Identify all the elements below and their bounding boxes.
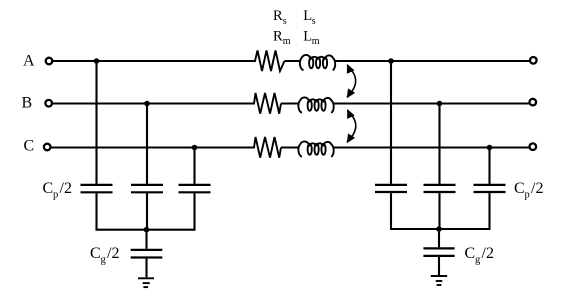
wire drop A left	[95, 61, 97, 184]
capacitor Cp/2 right column B	[424, 185, 456, 192]
wire line B left segment	[53, 102, 253, 104]
svg-text:C: C	[465, 245, 476, 262]
svg-text:/2: /2	[60, 180, 72, 197]
label Lm	[303, 29, 320, 48]
svg-text:s: s	[283, 16, 287, 27]
capacitor Cp/2 left column B	[131, 185, 163, 192]
svg-text:g: g	[475, 255, 481, 266]
label Cp/2 right	[514, 180, 543, 201]
label Cp/2 left	[43, 180, 72, 201]
wire line B resistor-to-coil segment	[281, 102, 299, 104]
label Ls	[303, 8, 316, 27]
svg-text:p: p	[53, 190, 58, 201]
wire line A left segment	[53, 60, 253, 62]
svg-text:A: A	[23, 53, 35, 70]
inductor Ls line A	[300, 55, 335, 70]
svg-text:m: m	[312, 36, 320, 47]
resistor Rs line A	[253, 51, 285, 72]
resistor Rs line B	[253, 93, 282, 114]
wire line C left segment	[51, 146, 252, 148]
terminal C left	[44, 144, 51, 151]
svg-text:/2: /2	[107, 245, 119, 262]
capacitor Cp/2 left column C	[179, 185, 211, 192]
svg-text:R: R	[273, 8, 283, 24]
wire cap-to-rail B right	[438, 193, 440, 230]
svg-text:B: B	[22, 95, 33, 112]
wire cap-to-rail B left	[146, 193, 148, 230]
wire Cg-to-ground left	[145, 259, 147, 278]
svg-text:/2: /2	[482, 245, 494, 262]
capacitor Cp/2 left column A	[81, 185, 113, 192]
svg-text:C: C	[514, 180, 525, 197]
inductor Ls line B	[298, 97, 333, 112]
junction dot line A right	[388, 58, 394, 64]
svg-text:C: C	[43, 180, 54, 197]
junction dot line B left	[144, 101, 150, 107]
label Rm	[273, 29, 291, 48]
terminal A right	[530, 57, 537, 64]
label Rs	[273, 8, 287, 27]
svg-text:g: g	[101, 255, 107, 266]
wire Cg-to-ground right	[438, 257, 440, 275]
svg-text:R: R	[273, 29, 283, 45]
wire line A right segment	[335, 60, 529, 62]
wire drop B left	[146, 104, 148, 184]
wire drop A right	[390, 61, 392, 184]
ground left	[138, 278, 154, 287]
svg-text:C: C	[24, 138, 35, 155]
wire drop C right	[488, 148, 490, 184]
junction dot rail left	[144, 227, 150, 233]
wire drop C left	[193, 148, 195, 184]
svg-text:m: m	[283, 36, 291, 47]
label Cg/2 left	[90, 245, 119, 266]
capacitor Cg/2 left	[131, 250, 163, 258]
resistor Rs line C	[253, 137, 282, 158]
wire cap-to-rail A left	[95, 193, 97, 230]
bottom rail left	[97, 229, 195, 231]
wire drop B right	[438, 104, 440, 184]
capacitor Cp/2 right column A	[375, 185, 407, 192]
coupling arrow A-B	[347, 64, 356, 98]
svg-text:/2: /2	[531, 180, 543, 197]
svg-text:p: p	[525, 190, 530, 201]
wire cap-to-rail C right	[488, 193, 490, 230]
svg-text:C: C	[90, 245, 101, 262]
wire line A resistor-to-coil segment	[285, 60, 301, 62]
junction dot line B right	[437, 101, 443, 107]
junction dot line C right	[487, 145, 493, 151]
capacitor Cg/2 right	[423, 248, 454, 256]
coupling arrow B-C	[347, 109, 356, 143]
terminal B left	[45, 100, 52, 107]
wire rail-to-Cg left	[145, 230, 147, 249]
svg-text:s: s	[312, 16, 316, 27]
wire line C resistor-to-coil segment	[281, 146, 299, 148]
ground right	[431, 276, 447, 285]
bottom rail right	[391, 228, 490, 230]
terminal C right	[530, 143, 537, 150]
wire line B right segment	[334, 102, 529, 104]
wire cap-to-rail A right	[390, 193, 392, 230]
junction dot line A left	[94, 58, 100, 64]
capacitor Cp/2 right column C	[474, 185, 506, 192]
terminal A left	[46, 58, 53, 65]
wire rail-to-Cg right	[438, 229, 440, 247]
label Cg/2 right	[465, 245, 494, 266]
inductor Ls line C	[298, 141, 333, 156]
wire line C right segment	[334, 146, 529, 148]
wire cap-to-rail C left	[193, 193, 195, 230]
junction dot line C left	[192, 145, 198, 151]
junction dot rail right	[436, 226, 442, 232]
terminal B right	[530, 99, 537, 106]
